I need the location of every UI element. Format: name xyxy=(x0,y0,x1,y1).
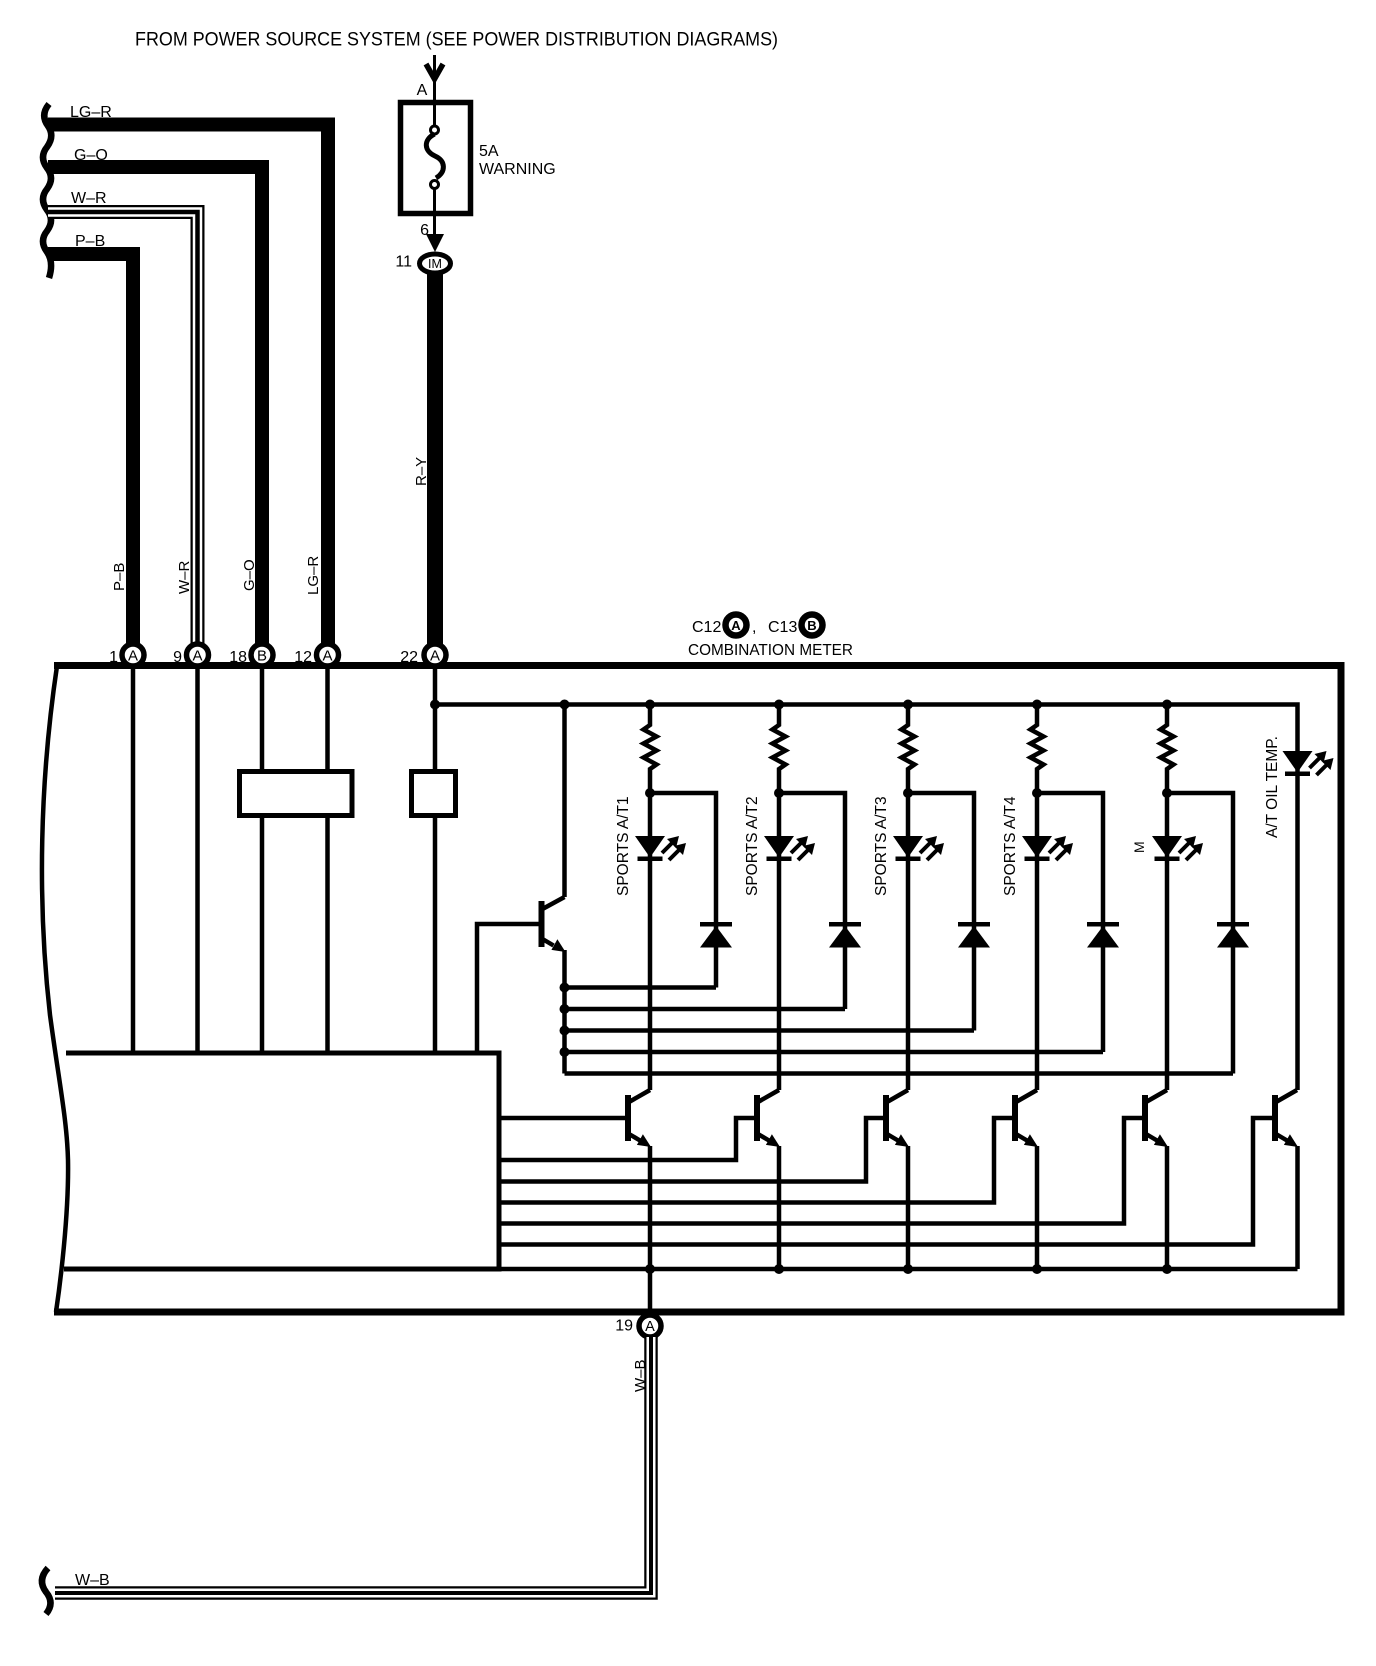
crossbar wire 2 xyxy=(565,1007,846,1012)
inner wire from pin 18 xyxy=(260,661,265,1053)
fuse 5A WARNING xyxy=(401,102,471,234)
svg-text:SPORTS A/T2: SPORTS A/T2 xyxy=(744,796,761,896)
combination meter box top edge xyxy=(54,662,1345,669)
svg-text:P–B: P–B xyxy=(111,563,128,591)
base pin wire 1 xyxy=(499,1116,625,1121)
power feed arrow xyxy=(433,55,436,104)
transistor Q6 xyxy=(1272,1090,1298,1147)
wire LG-R xyxy=(48,125,328,647)
svg-text:P–B: P–B xyxy=(75,233,105,250)
base pin wire 6 xyxy=(499,1118,1272,1245)
crossbar wire 4 xyxy=(565,1050,1104,1055)
crossbar wire 3 xyxy=(565,1028,975,1033)
transistor Q4 xyxy=(1012,1090,1038,1147)
arrow into IM xyxy=(426,234,444,252)
combination meter box right edge xyxy=(1338,662,1345,1316)
wire G-O xyxy=(48,167,262,646)
transistor Q7 collector wire xyxy=(562,705,567,898)
connector 22 A xyxy=(424,644,446,666)
transistor Q7 base wire xyxy=(477,924,539,1053)
svg-text:5A: 5A xyxy=(479,143,499,160)
svg-text:A: A xyxy=(417,82,428,99)
transistor Q3 xyxy=(883,1090,909,1147)
svg-text:19: 19 xyxy=(615,1318,633,1335)
transistor Q2 xyxy=(754,1090,780,1147)
svg-text:C12: C12 xyxy=(692,619,721,636)
svg-text:G–O: G–O xyxy=(74,147,108,164)
svg-text:B: B xyxy=(257,648,267,665)
svg-text:A/T OIL TEMP.: A/T OIL TEMP. xyxy=(1264,736,1281,838)
inner wire from pin 1 xyxy=(131,661,136,1053)
combination meter box torn left edge xyxy=(42,666,68,1312)
crossbar wire 5 xyxy=(565,1071,1234,1076)
svg-text:FROM POWER SOURCE SYSTEM (SEE: FROM POWER SOURCE SYSTEM (SEE POWER DIST… xyxy=(135,29,778,51)
branch 6 A/T OIL TEMP LED xyxy=(1264,736,1334,838)
svg-text:W–R: W–R xyxy=(176,561,193,595)
connector 18 B xyxy=(251,644,273,666)
connector IM junction xyxy=(420,254,451,273)
junction dots on ground rail xyxy=(645,1264,1172,1274)
svg-text:,: , xyxy=(752,619,756,636)
inner wire from pin 22 xyxy=(433,661,438,1053)
svg-text:WARNING: WARNING xyxy=(479,161,556,178)
junction dots on bus xyxy=(430,700,1172,710)
svg-text:R–Y: R–Y xyxy=(413,457,430,486)
svg-text:LG–R: LG–R xyxy=(70,104,112,121)
base pin wire 4 xyxy=(499,1118,1012,1203)
base pin wire 5 xyxy=(499,1118,1142,1224)
ground rail xyxy=(499,1267,1298,1272)
connector 12 A xyxy=(317,644,339,666)
svg-text:IM: IM xyxy=(428,257,442,271)
svg-text:1: 1 xyxy=(109,649,118,666)
svg-text:C13: C13 xyxy=(768,619,797,636)
driver block box xyxy=(66,1053,499,1269)
emitter wires to ground rail xyxy=(648,1146,653,1269)
svg-text:12: 12 xyxy=(294,649,312,666)
svg-text:SPORTS A/T3: SPORTS A/T3 xyxy=(873,796,890,896)
gauge block rect xyxy=(240,772,353,816)
wire W-B (white wire with stripe) xyxy=(55,1337,651,1593)
wire W-R (white wire with stripe) xyxy=(48,212,198,646)
connector 1 A xyxy=(122,644,144,666)
branch 4 SPORTS A/T4 xyxy=(1002,705,1119,1090)
torn-edge squiggle bottom-left xyxy=(42,1568,51,1614)
inner wire from pin 12 xyxy=(325,661,330,1053)
crossbar wire 1 xyxy=(565,985,717,990)
wire to pin 19 xyxy=(648,1269,653,1315)
branch 2 SPORTS A/T2 xyxy=(744,705,861,1090)
wire P-B xyxy=(48,254,133,646)
svg-text:COMBINATION METER: COMBINATION METER xyxy=(688,642,853,659)
svg-text:W–R: W–R xyxy=(71,190,107,207)
transistor Q1 xyxy=(625,1090,651,1147)
transistor Q7 xyxy=(539,897,566,952)
svg-text:11: 11 xyxy=(395,254,412,271)
svg-text:18: 18 xyxy=(229,649,247,666)
svg-text:A: A xyxy=(645,1319,655,1335)
svg-text:B: B xyxy=(807,618,816,633)
branch 1 SPORTS A/T1 xyxy=(615,705,732,1090)
svg-text:9: 9 xyxy=(173,649,182,666)
wire R-Y xyxy=(427,272,443,646)
branch 3 SPORTS A/T3 xyxy=(873,705,990,1090)
svg-text:LG–R: LG–R xyxy=(305,556,322,595)
inner wire from pin 9 xyxy=(195,661,200,1053)
transistor Q7 emitter wire xyxy=(562,950,567,1074)
junction dots on Q7 emitter xyxy=(560,983,570,1058)
svg-text:22: 22 xyxy=(400,649,418,666)
svg-text:W–B: W–B xyxy=(632,1359,649,1392)
svg-text:SPORTS A/T1: SPORTS A/T1 xyxy=(615,796,632,896)
svg-text:A: A xyxy=(731,618,741,633)
svg-text:A: A xyxy=(322,648,332,665)
connector 9 A xyxy=(187,644,209,666)
svg-text:A: A xyxy=(430,648,440,665)
bus wire from pin 22 to branches xyxy=(435,705,1298,1091)
transistor Q5 xyxy=(1142,1090,1168,1147)
svg-text:G–O: G–O xyxy=(241,559,258,591)
combination meter box bottom edge xyxy=(54,1309,1345,1316)
connector 19 A xyxy=(639,1315,661,1337)
svg-text:A: A xyxy=(128,648,138,665)
svg-text:SPORTS A/T4: SPORTS A/T4 xyxy=(1002,796,1019,896)
junction dots below resistors xyxy=(645,788,1172,798)
base pin wire 2 xyxy=(499,1118,754,1160)
svg-text:W–B: W–B xyxy=(75,1572,110,1589)
svg-text:A: A xyxy=(192,648,202,665)
branch 5 M xyxy=(1131,705,1249,1090)
base pin wire 3 xyxy=(499,1118,883,1182)
svg-text:M: M xyxy=(1131,841,1147,853)
torn-edge squiggle top-left xyxy=(43,104,51,278)
small block rect xyxy=(412,772,456,816)
